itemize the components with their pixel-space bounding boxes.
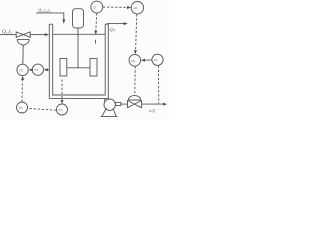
wire LC output dashed down xyxy=(136,14,137,50)
wire feed-2 pipe xyxy=(36,13,64,20)
motor M agitator drive xyxy=(73,9,84,28)
arrow LT probe at liquid level xyxy=(94,31,97,35)
level depth tick xyxy=(95,40,97,44)
arrow feed-1 into tank xyxy=(45,33,49,36)
svg-text:LT: LT xyxy=(93,6,96,10)
tank wall top caps xyxy=(49,23,108,25)
arrow into LC xyxy=(127,6,131,9)
agitator right blade xyxy=(90,59,97,77)
wire FT to FC xyxy=(145,59,152,61)
wire TE to TC xyxy=(31,69,33,71)
arrow into FC xyxy=(134,50,137,54)
svg-text:Q₁,t₁: Q₁,t₁ xyxy=(2,29,12,35)
wire pump suction from tank bottom xyxy=(104,98,106,101)
wire FC output dashed to valve V2 xyxy=(134,66,136,94)
agitator left blade xyxy=(60,59,67,77)
liquid level line xyxy=(53,33,105,35)
agitator shaft xyxy=(77,28,79,68)
valve V2 diaphragm actuator dome xyxy=(128,95,140,100)
wire TC output up to valve V1 actuator xyxy=(22,45,24,64)
svg-text:TT: TT xyxy=(35,68,39,72)
pump P1 casing xyxy=(104,99,115,110)
instrument TC temperature controller upper xyxy=(17,64,28,75)
arrow overflow outlet xyxy=(124,22,128,25)
pump base support xyxy=(101,108,118,117)
wire outlet pipe after valve xyxy=(142,103,164,105)
arrow into TE xyxy=(44,68,48,71)
valve V1 diaphragm actuator xyxy=(17,40,30,46)
wire LT sensing line dashed into tank xyxy=(96,13,97,30)
instrument TE sensor bubble xyxy=(32,64,43,75)
valve V1 bowtie xyxy=(16,32,30,37)
svg-text:TT: TT xyxy=(58,108,62,112)
wire temperature probe dashed in tank xyxy=(61,80,63,101)
instrument FT flow transmitter right xyxy=(152,54,163,65)
tank outer shell xyxy=(49,24,108,98)
arrow feed-2 into tank xyxy=(62,19,65,23)
wire TT to TC2 dashed horizontal xyxy=(28,108,57,110)
arrow into TC from TE xyxy=(29,68,33,71)
arrow into TC upper from below xyxy=(21,76,24,80)
agitator hub bar xyxy=(67,67,90,69)
instrument LC level controller xyxy=(131,2,143,14)
wire overflow outlet pipe xyxy=(107,23,125,25)
wire feed-1 pipe right segment xyxy=(30,34,45,36)
wire LT signal to LC dashed xyxy=(103,6,128,8)
wire feed-1 pipe left segment xyxy=(0,34,16,36)
instrument FC flow controller right xyxy=(129,55,141,67)
wire bottom TC up dashed xyxy=(21,80,23,103)
arrow into FC from FT xyxy=(141,59,145,62)
wire pump to valve V2 xyxy=(121,103,128,105)
valve V2 bowtie xyxy=(128,101,142,108)
arrow probe into TT xyxy=(61,100,64,104)
instrument TT temperature transmitter xyxy=(57,104,68,115)
svg-text:FT: FT xyxy=(154,58,158,62)
wire tank to TE with arrow xyxy=(47,69,49,71)
instrument LT level transmitter xyxy=(91,1,103,13)
tank inner wall lines xyxy=(53,24,105,95)
wire FT sensing dashed to outlet pipe xyxy=(157,66,159,104)
arrow outlet end xyxy=(163,103,167,106)
pump discharge coupling xyxy=(115,102,120,105)
instrument TC2 bottom-left bubble xyxy=(17,102,28,113)
